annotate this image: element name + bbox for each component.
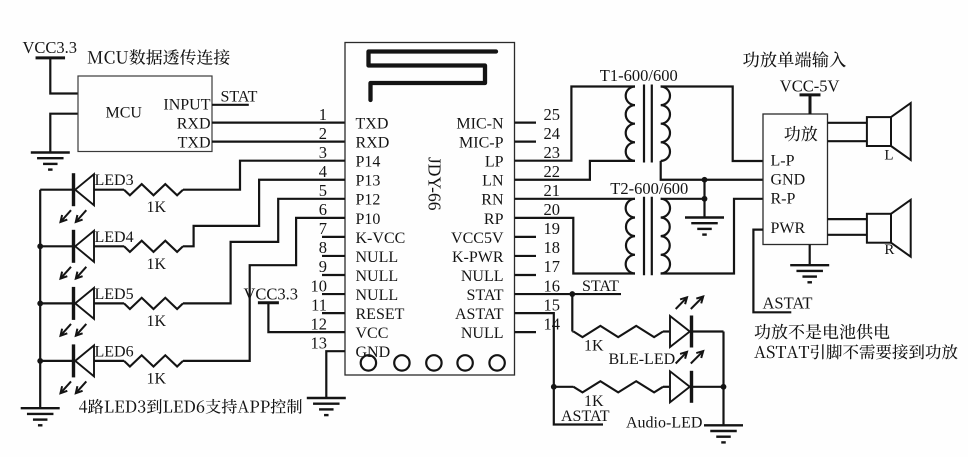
svg-text:RP: RP	[484, 211, 504, 228]
svg-text:NULL: NULL	[356, 249, 399, 266]
svg-text:VCC5V: VCC5V	[451, 230, 504, 247]
svg-text:LED6: LED6	[95, 343, 134, 360]
svg-text:LP: LP	[485, 154, 504, 171]
svg-text:T1-600/600: T1-600/600	[600, 66, 678, 85]
svg-text:VCC3.3: VCC3.3	[23, 38, 78, 57]
svg-text:1K: 1K	[147, 313, 167, 330]
svg-text:TXD: TXD	[356, 116, 389, 133]
svg-text:6: 6	[319, 200, 327, 219]
svg-text:T2-600/600: T2-600/600	[610, 179, 688, 198]
svg-text:MIC-N: MIC-N	[456, 116, 504, 133]
svg-text:ASTAT: ASTAT	[561, 408, 610, 425]
svg-text:LED5: LED5	[95, 286, 134, 303]
svg-text:1K: 1K	[147, 370, 167, 387]
svg-text:L: L	[884, 148, 893, 164]
svg-text:21: 21	[544, 181, 561, 200]
svg-text:VCC-5V: VCC-5V	[780, 77, 840, 96]
svg-text:1K: 1K	[147, 256, 167, 273]
svg-text:22: 22	[544, 162, 561, 181]
svg-text:20: 20	[544, 200, 561, 219]
svg-text:1: 1	[319, 105, 327, 124]
svg-text:ASTAT: ASTAT	[455, 306, 504, 323]
svg-text:RXD: RXD	[356, 135, 390, 152]
svg-text:LN: LN	[482, 173, 504, 190]
svg-text:7: 7	[319, 219, 327, 238]
svg-text:14: 14	[544, 314, 561, 333]
svg-text:LED3: LED3	[95, 172, 134, 189]
svg-text:11: 11	[311, 295, 327, 314]
svg-text:BLE-LED: BLE-LED	[609, 351, 676, 368]
svg-text:P13: P13	[356, 173, 381, 190]
svg-text:16: 16	[544, 276, 561, 295]
svg-text:3: 3	[319, 143, 327, 162]
svg-text:13: 13	[311, 333, 328, 352]
svg-text:JDY-66: JDY-66	[425, 157, 445, 211]
svg-text:17: 17	[544, 257, 561, 276]
svg-text:VCC: VCC	[356, 325, 389, 342]
svg-text:1K: 1K	[147, 199, 167, 216]
svg-text:2: 2	[319, 124, 327, 143]
svg-text:NULL: NULL	[356, 268, 399, 285]
svg-text:12: 12	[311, 314, 328, 333]
svg-text:R-P: R-P	[771, 190, 796, 207]
svg-text:19: 19	[544, 219, 561, 238]
svg-text:P12: P12	[356, 192, 381, 209]
svg-text:MCU: MCU	[106, 105, 143, 122]
svg-text:5: 5	[319, 181, 327, 200]
svg-text:RESET: RESET	[356, 306, 405, 323]
svg-text:LED4: LED4	[95, 229, 134, 246]
svg-text:STAT: STAT	[221, 89, 258, 106]
svg-text:8: 8	[319, 238, 327, 257]
svg-text:STAT: STAT	[582, 278, 619, 295]
svg-text:10: 10	[311, 276, 328, 295]
svg-text:MIC-P: MIC-P	[459, 135, 504, 152]
svg-text:PWR: PWR	[771, 220, 806, 237]
svg-text:RN: RN	[481, 192, 504, 209]
svg-text:NULL: NULL	[461, 325, 504, 342]
svg-text:K-VCC: K-VCC	[356, 230, 406, 247]
svg-text:15: 15	[544, 295, 561, 314]
svg-text:ASTAT: ASTAT	[763, 294, 813, 313]
svg-text:P10: P10	[356, 211, 381, 228]
svg-text:18: 18	[544, 238, 561, 257]
svg-text:TXD: TXD	[178, 135, 211, 152]
svg-text:NULL: NULL	[356, 287, 399, 304]
svg-text:STAT: STAT	[467, 287, 504, 304]
svg-text:4: 4	[319, 162, 327, 181]
svg-text:24: 24	[544, 124, 561, 143]
svg-text:INPUT: INPUT	[163, 97, 210, 114]
svg-text:Audio-LED: Audio-LED	[626, 415, 702, 432]
svg-text:25: 25	[544, 105, 561, 124]
svg-text:GND: GND	[771, 171, 806, 188]
svg-text:VCC3.3: VCC3.3	[244, 285, 299, 304]
svg-text:RXD: RXD	[177, 116, 211, 133]
svg-text:NULL: NULL	[461, 268, 504, 285]
svg-text:K-PWR: K-PWR	[452, 249, 504, 266]
svg-text:L-P: L-P	[771, 153, 795, 170]
svg-text:1K: 1K	[584, 393, 604, 410]
svg-text:1K: 1K	[584, 338, 604, 355]
svg-text:9: 9	[319, 257, 327, 276]
svg-text:R: R	[884, 242, 894, 258]
svg-text:P14: P14	[356, 154, 381, 171]
svg-text:GND: GND	[356, 344, 391, 361]
svg-text:23: 23	[544, 143, 561, 162]
